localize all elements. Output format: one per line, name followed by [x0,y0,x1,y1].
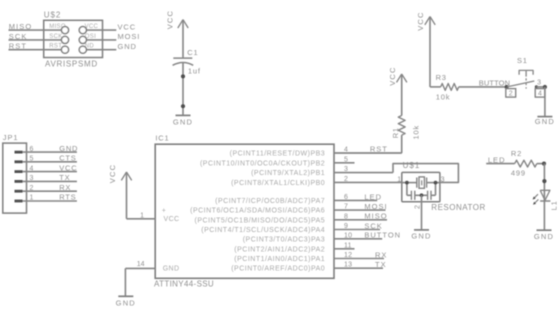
svg-text:5: 5 [30,156,34,163]
svg-text:SCK: SCK [364,221,382,230]
svg-text:MISO: MISO [9,22,33,31]
svg-text:SCK: SCK [9,32,28,41]
svg-text:JP1: JP1 [3,133,19,142]
svg-text:(PCINT0/AREF/ADC0)PA0: (PCINT0/AREF/ADC0)PA0 [231,266,325,273]
svg-text:2: 2 [509,91,513,98]
svg-text:499: 499 [511,169,526,178]
svg-text:3: 3 [537,80,541,87]
svg-text:S1: S1 [517,56,528,65]
svg-text:AVRISPSMD: AVRISPSMD [45,59,98,68]
svg-text:(PCINT3/T0/ADC3)PA3: (PCINT3/T0/ADC3)PA3 [243,236,326,243]
svg-text:3: 3 [30,175,34,182]
svg-text:ATTINY44-SSU: ATTINY44-SSU [154,280,214,289]
svg-text:7: 7 [344,204,348,211]
svg-text:VCC: VCC [164,216,180,223]
svg-text:LED: LED [364,192,382,201]
svg-text:12: 12 [344,252,352,259]
svg-text:11: 11 [344,242,352,249]
svg-text:4: 4 [30,165,34,172]
svg-text:1: 1 [30,195,34,202]
svg-text:CTS: CTS [59,154,76,163]
svg-text:(PCINT1/AIN0/ADC1)PA1: (PCINT1/AIN0/ADC1)PA1 [234,256,325,263]
svg-text:(PCINT8/XTAL1/CLKI)PB0: (PCINT8/XTAL1/CLKI)PB0 [231,180,325,187]
svg-text:(PCINT2/AIN1/ADC2)PA2: (PCINT2/AIN1/ADC2)PA2 [234,246,325,253]
svg-text:(PCINT10/INT0/OC0A/CKOUT)PB2: (PCINT10/INT0/OC0A/CKOUT)PB2 [200,160,325,167]
svg-text:2: 2 [30,185,34,192]
svg-text:5: 5 [344,156,348,163]
svg-text:3: 3 [344,166,348,173]
svg-text:(PCINT9/XTAL2)PB1: (PCINT9/XTAL2)PB1 [251,170,325,177]
svg-text:14: 14 [137,261,145,268]
svg-text:IC1: IC1 [155,134,169,143]
svg-text:(PCINT11/RESET/DW)PB3: (PCINT11/RESET/DW)PB3 [230,151,326,158]
svg-text:RTS: RTS [59,193,76,202]
svg-text:R3: R3 [436,73,447,82]
svg-text:RESONATOR: RESONATOR [431,203,485,212]
svg-text:R1: R1 [391,127,400,138]
svg-text:2: 2 [414,205,421,209]
svg-text:6: 6 [344,194,348,201]
svg-text:U$1: U$1 [403,161,421,170]
svg-text:9: 9 [344,223,348,230]
svg-text:C1: C1 [187,48,198,57]
svg-text:10k: 10k [436,92,451,101]
svg-text:4: 4 [538,91,542,98]
svg-text:+: + [162,208,166,215]
svg-text:8: 8 [344,213,348,220]
svg-text:U$2: U$2 [44,10,62,19]
svg-text:R2: R2 [511,149,522,158]
svg-text:GND: GND [118,42,137,51]
svg-text:1: 1 [140,212,144,219]
svg-text:RST: RST [9,42,27,51]
svg-text:VCC: VCC [388,66,397,85]
svg-text:MOSI: MOSI [364,202,387,211]
svg-text:GND: GND [116,298,136,307]
svg-text:10k: 10k [411,125,420,140]
svg-text:(PCINT7/ICP/OC0B/ADC7)PA7: (PCINT7/ICP/OC0B/ADC7)PA7 [215,198,325,205]
svg-text:VCC: VCC [416,11,425,30]
svg-text:(PCINT5/OC1B/MISO/DO/ADC5)PA5: (PCINT5/OC1B/MISO/DO/ADC5)PA5 [195,217,326,224]
svg-text:RX: RX [375,250,387,259]
svg-text:1uf: 1uf [188,66,201,75]
svg-text:2: 2 [344,176,348,183]
svg-text:6: 6 [30,146,34,153]
svg-text:TX: TX [375,260,387,269]
svg-text:VCC: VCC [59,163,77,172]
svg-text:VCC: VCC [108,164,117,183]
svg-text:MOSI: MOSI [118,32,141,41]
svg-text:GND: GND [59,144,78,153]
svg-text:GND: GND [173,118,193,127]
svg-text:10: 10 [344,232,352,239]
svg-text:1: 1 [397,176,401,183]
svg-text:(PCINT4/T1/SCL/USCK/ADC4)PA4: (PCINT4/T1/SCL/USCK/ADC4)PA4 [201,227,325,234]
svg-text:13: 13 [344,262,352,269]
svg-text:RST: RST [49,44,62,50]
svg-text:MISO: MISO [364,212,387,221]
svg-text:TX: TX [59,173,70,182]
svg-text:VCC: VCC [118,22,137,31]
svg-text:VCC: VCC [165,10,174,29]
svg-text:SCK: SCK [49,34,62,40]
svg-text:RX: RX [59,183,71,192]
svg-text:GND: GND [411,232,431,241]
svg-text:L1: L1 [550,200,559,210]
svg-text:BUTTON: BUTTON [364,231,401,240]
svg-text:GND: GND [534,232,554,241]
svg-text:GND: GND [163,265,180,272]
svg-text:GND: GND [535,117,555,126]
svg-text:(PCINT6/OC1A/SDA/MOSI/ADC6)PA6: (PCINT6/OC1A/SDA/MOSI/ADC6)PA6 [190,208,325,215]
svg-text:RST: RST [370,144,388,153]
